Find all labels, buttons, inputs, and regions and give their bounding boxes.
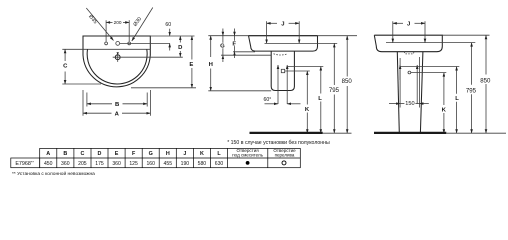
svg-text:* 150 в случае установки без п: * 150 в случае установки без полуколонны (227, 140, 330, 146)
J extension lines (266, 21, 268, 43)
svg-text:D: D (98, 151, 102, 157)
svg-text:190: 190 (181, 161, 190, 167)
leader diameter 30 (132, 8, 153, 42)
svg-text:H: H (209, 62, 213, 68)
waste width arrows (265, 103, 279, 105)
basin inner rim line (62, 48, 150, 50)
dimension C (64, 49, 66, 61)
svg-text:K: K (200, 151, 204, 157)
fixing holes line (265, 42, 338, 44)
svg-text:60°: 60° (263, 97, 271, 103)
tap hole line (113, 56, 183, 58)
fixing circle (408, 71, 411, 74)
svg-text:850: 850 (342, 78, 353, 85)
top edge extension (150, 35, 194, 37)
dimension E (191, 36, 193, 60)
J extension lines right (392, 21, 394, 42)
svg-text:450: 450 (44, 161, 53, 167)
K top extension (285, 70, 310, 72)
svg-text:J: J (183, 151, 186, 157)
svg-text:795: 795 (329, 87, 340, 94)
svg-text:850: 850 (480, 78, 491, 85)
floor right thick (374, 132, 446, 134)
floor right thin (446, 132, 506, 134)
dimension 150 (389, 103, 400, 105)
svg-text:205: 205 (78, 161, 87, 167)
svg-text:J: J (407, 22, 410, 28)
basin profile (249, 36, 318, 51)
svg-text:F: F (232, 41, 236, 47)
H bottom extension (208, 90, 271, 92)
svg-text:360: 360 (112, 161, 121, 167)
svg-text:** Установка с колонной невозм: ** Установка с колонной невозможна (12, 170, 95, 177)
dimension B (87, 103, 112, 105)
svg-text:580: 580 (198, 161, 207, 167)
svg-text:630: 630 (215, 161, 224, 167)
dimension K right (443, 73, 445, 105)
dimension 200 (105, 20, 107, 41)
rim extension line (208, 35, 357, 37)
svg-text:под смеситель: под смеситель (232, 153, 263, 158)
dimension J right (393, 22, 403, 24)
tap hole middle (116, 42, 120, 46)
svg-text:150: 150 (405, 101, 414, 107)
svg-text:Ø35: Ø35 (87, 14, 98, 25)
fixing square (281, 69, 284, 72)
svg-text:K: K (305, 107, 310, 113)
svg-text:L: L (217, 151, 221, 157)
table frame (40, 148, 301, 167)
C bottom extension (62, 83, 101, 85)
G bottom extension (221, 54, 271, 56)
A extension lines (82, 90, 84, 116)
overflow circle (282, 161, 286, 165)
mixer hole dot (246, 161, 250, 165)
svg-text:G: G (149, 151, 153, 157)
dimension J middle (267, 22, 277, 24)
svg-text:C: C (63, 63, 68, 69)
svg-text:J: J (281, 22, 284, 28)
svg-text:360: 360 (61, 161, 70, 167)
svg-text:175: 175 (95, 161, 104, 167)
svg-text:H: H (166, 151, 170, 157)
pipe line left right view (399, 65, 401, 80)
B extension lines (86, 93, 88, 107)
dimension K middle (306, 71, 308, 105)
svg-text:B: B (63, 151, 67, 157)
dimension G (222, 29, 224, 36)
svg-text:455: 455 (164, 161, 173, 167)
semi-pedestal (271, 51, 294, 90)
svg-text:E: E (115, 151, 119, 157)
rim extension right (442, 34, 489, 36)
svg-text:L: L (455, 96, 459, 102)
drain dashed arc (274, 54, 288, 55)
svg-text:200: 200 (114, 20, 122, 25)
L top extension right (400, 66, 459, 68)
waste pipe line left (277, 65, 279, 104)
svg-text:D: D (178, 45, 182, 51)
svg-text:795: 795 (466, 87, 477, 94)
dimension 795 right (471, 43, 473, 85)
svg-text:E7968**: E7968** (15, 161, 34, 168)
leader diameter 35 (86, 8, 113, 41)
dimension 850 right (485, 35, 487, 74)
svg-text:L: L (318, 96, 322, 102)
table headers (46, 151, 221, 157)
svg-text:60: 60 (165, 22, 171, 28)
floor middle thin (323, 132, 352, 134)
E bottom extension (131, 87, 196, 89)
bowl inner arc (87, 49, 147, 84)
svg-text:F: F (132, 151, 136, 157)
hole centre line (120, 42, 170, 44)
dimension D (179, 36, 181, 43)
dimension A (83, 112, 112, 114)
svg-text:C: C (80, 151, 84, 157)
dimension H (210, 36, 212, 57)
header mixer holes (232, 148, 296, 158)
dimension L middle (320, 67, 322, 94)
L top extension (287, 66, 323, 68)
svg-text:A: A (46, 151, 50, 157)
dimension 850 middle (346, 36, 348, 77)
svg-text:G: G (220, 44, 225, 50)
waste pipe line right (286, 65, 288, 104)
tap hole symbol (115, 55, 120, 60)
dimension 795 middle (333, 43, 335, 85)
pedestal column (397, 52, 399, 133)
tap hole right (128, 42, 131, 45)
dimension L right (456, 67, 458, 94)
dimension F (234, 29, 236, 36)
floor middle thick (250, 132, 323, 134)
dimension 60 (169, 29, 171, 36)
basin outline plan (83, 36, 150, 87)
150 extension lines (399, 58, 401, 108)
pipe line right right view (416, 65, 418, 104)
svg-text:160: 160 (146, 161, 155, 167)
svg-text:перелива: перелива (275, 153, 295, 158)
svg-text:K: K (442, 108, 447, 114)
drain dashed arc right (405, 51, 414, 54)
svg-text:125: 125 (129, 161, 138, 167)
K top extension right (411, 72, 447, 74)
table data row (15, 161, 223, 168)
fixing line right (386, 42, 475, 44)
svg-text:E: E (189, 62, 193, 68)
svg-text:B: B (115, 102, 119, 108)
tap hole left (105, 42, 108, 45)
F bottom extension (233, 51, 255, 53)
basin profile right (374, 35, 442, 52)
svg-text:A: A (115, 111, 120, 117)
